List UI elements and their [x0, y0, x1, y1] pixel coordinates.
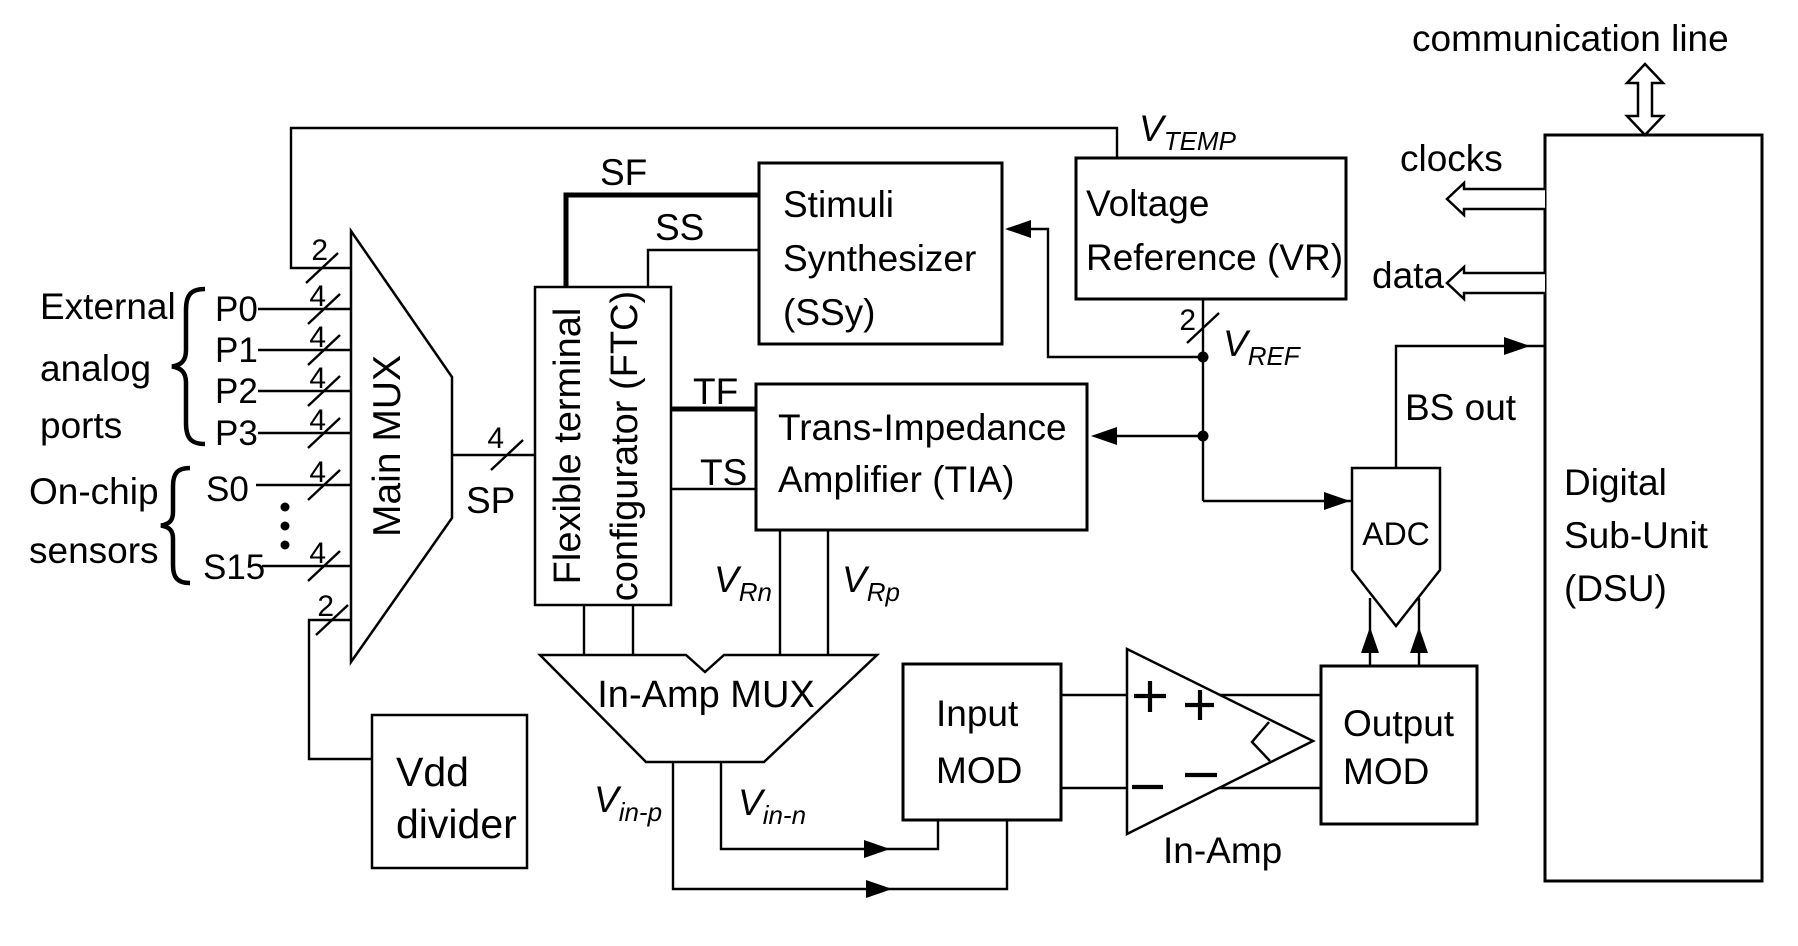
svg-text:S0: S0	[206, 470, 249, 509]
svg-text:Amplifier (TIA): Amplifier (TIA)	[778, 459, 1014, 500]
block In-Amp MUX	[540, 655, 877, 762]
svg-text:clocks: clocks	[1400, 138, 1503, 179]
dots ellipsis sensors	[281, 503, 290, 550]
svg-text:4: 4	[487, 422, 504, 455]
svg-text:2: 2	[317, 590, 334, 623]
svg-text:sensors: sensors	[29, 530, 159, 571]
block Input MOD	[903, 664, 1061, 820]
svg-text:TF: TF	[693, 371, 738, 412]
svg-text:Sub-Unit: Sub-Unit	[1564, 515, 1709, 556]
wire V_Rn	[779, 530, 781, 655]
wire VR output bus	[1202, 299, 1204, 357]
svg-text:External: External	[40, 286, 176, 327]
arrowhead ADC feed left	[1361, 627, 1379, 653]
wire In-Amp input top	[1061, 694, 1321, 696]
arrowhead V_in-p	[866, 880, 892, 898]
wire V_in-n	[721, 762, 938, 849]
wire S0	[256, 484, 351, 486]
svg-text:On-chip: On-chip	[29, 471, 159, 512]
svg-text:Flexible terminal: Flexible terminal	[547, 308, 589, 585]
wire FTC to In-Amp MUX left	[583, 605, 585, 655]
brace external ports	[172, 289, 205, 444]
svg-text:Stimuli: Stimuli	[783, 184, 894, 225]
junction V_REF	[1198, 352, 1209, 363]
svg-text:4: 4	[309, 321, 326, 354]
arrowhead into TIA	[1091, 427, 1117, 445]
svg-text:P0: P0	[215, 290, 258, 329]
block Vdd divider	[372, 715, 527, 868]
svg-text:Input: Input	[936, 693, 1019, 734]
label P0	[203, 152, 1517, 587]
bus slash bottom 2	[316, 605, 348, 635]
bus slash P3	[308, 418, 340, 448]
svg-text:In-Amp: In-Amp	[1163, 830, 1282, 871]
wire to ADC	[1203, 500, 1352, 502]
bus slash SP	[491, 440, 523, 470]
arrowhead BS out	[1504, 337, 1530, 355]
block ADC	[1352, 468, 1440, 626]
op-amp In-Amp	[1127, 649, 1313, 871]
svg-text:communication line: communication line	[1412, 18, 1729, 59]
wire In-Amp input bottom	[1061, 787, 1321, 789]
wire P2	[258, 390, 351, 392]
wire P3	[258, 432, 351, 434]
svg-text:MOD: MOD	[1343, 751, 1429, 792]
arrowhead into ADC	[1324, 492, 1350, 510]
wire V_REF vertical	[1202, 357, 1204, 501]
bus slash P0	[306, 253, 1219, 635]
bus width 2 top	[309, 234, 1196, 623]
brace sensors	[161, 468, 190, 583]
svg-text:Vdd: Vdd	[396, 749, 469, 795]
svg-text:Reference (VR): Reference (VR)	[1086, 237, 1343, 278]
svg-text:4: 4	[309, 404, 326, 437]
wire V_Rp	[827, 530, 829, 655]
svg-text:S15: S15	[203, 548, 265, 587]
wire FTC to In-Amp MUX right	[632, 605, 634, 655]
svg-text:2: 2	[311, 234, 328, 267]
svg-text:4: 4	[309, 456, 326, 489]
block SSy	[759, 163, 1002, 344]
wire BS out	[1396, 346, 1545, 468]
svg-text:MOD: MOD	[936, 750, 1022, 791]
svg-text:In-Amp MUX: In-Amp MUX	[597, 674, 814, 716]
svg-text:Synthesizer: Synthesizer	[783, 238, 976, 279]
block TIA	[756, 384, 1087, 530]
junction TIA feed	[1198, 431, 1209, 442]
wire SS	[648, 250, 759, 287]
svg-text:4: 4	[309, 362, 326, 395]
svg-text:Voltage: Voltage	[1086, 183, 1209, 224]
svg-text:(SSy): (SSy)	[783, 292, 876, 333]
block Output MOD	[1321, 666, 1477, 824]
wire Output MOD to ADC right	[1418, 598, 1420, 666]
wire V_in-p	[673, 762, 1007, 889]
svg-text:divider: divider	[396, 801, 517, 847]
wire Vdd divider feed	[309, 620, 372, 759]
arrow clocks (hollow left)	[1447, 183, 1545, 215]
svg-text:Main MUX: Main MUX	[366, 355, 409, 537]
svg-text:Output: Output	[1343, 703, 1455, 744]
bus slash P2	[308, 376, 340, 406]
wire top loop to V_TEMP	[291, 128, 1117, 268]
wire Output MOD to ADC left	[1369, 598, 1371, 666]
block FTC	[535, 287, 671, 605]
svg-text:data: data	[1372, 255, 1444, 296]
svg-text:analog: analog	[40, 348, 151, 389]
wire to TIA	[1096, 435, 1203, 437]
arrowhead into SSy	[1005, 220, 1031, 238]
wire TF (thick)	[671, 407, 756, 412]
wire P1	[258, 349, 351, 351]
svg-text:ADC: ADC	[1362, 516, 1430, 552]
svg-text:2: 2	[1179, 304, 1196, 337]
svg-text:Digital: Digital	[1564, 462, 1667, 503]
block VR	[1076, 158, 1346, 299]
wire TS	[671, 488, 756, 490]
svg-text:P3: P3	[215, 414, 258, 453]
svg-text:P1: P1	[215, 331, 258, 370]
svg-text:SF: SF	[600, 152, 647, 193]
arrow data (hollow left)	[1447, 267, 1545, 299]
svg-text:TS: TS	[700, 452, 747, 493]
bus slash top 2	[306, 253, 338, 283]
svg-text:ports: ports	[40, 405, 122, 446]
svg-text:Trans-Impedance: Trans-Impedance	[778, 407, 1067, 448]
wire S15	[262, 565, 351, 567]
bus slash S15	[308, 551, 340, 581]
bus slash P1	[308, 335, 340, 365]
bus slash V_REF	[1187, 313, 1219, 343]
svg-text:4: 4	[309, 280, 326, 313]
svg-text:SS: SS	[655, 207, 704, 248]
wire SP bus	[452, 454, 535, 456]
svg-text:configurator (FTC): configurator (FTC)	[604, 291, 646, 601]
op-amp chopper mark	[1252, 722, 1270, 761]
bus slash S0	[308, 470, 340, 500]
label On-chip sensors	[29, 471, 159, 571]
arrow communication line (double headed hollow)	[1627, 64, 1663, 135]
block Main MUX	[351, 231, 452, 662]
arrowhead V_in-n	[864, 840, 890, 858]
wire P0	[258, 308, 351, 310]
svg-text:(DSU): (DSU)	[1564, 568, 1667, 609]
op-amp plus inputs	[1132, 681, 1217, 787]
wire SF (thick)	[566, 195, 759, 287]
svg-text:P2: P2	[215, 372, 258, 411]
block DSU	[1545, 135, 1762, 881]
op-amp minus inputs	[1132, 785, 1163, 789]
svg-text:SP: SP	[466, 480, 515, 521]
svg-text:BS out: BS out	[1405, 387, 1517, 428]
svg-text:4: 4	[309, 537, 326, 570]
arrowhead ADC feed right	[1410, 627, 1428, 653]
wire VR to SSy	[1008, 229, 1203, 357]
label External analog ports	[40, 286, 176, 446]
